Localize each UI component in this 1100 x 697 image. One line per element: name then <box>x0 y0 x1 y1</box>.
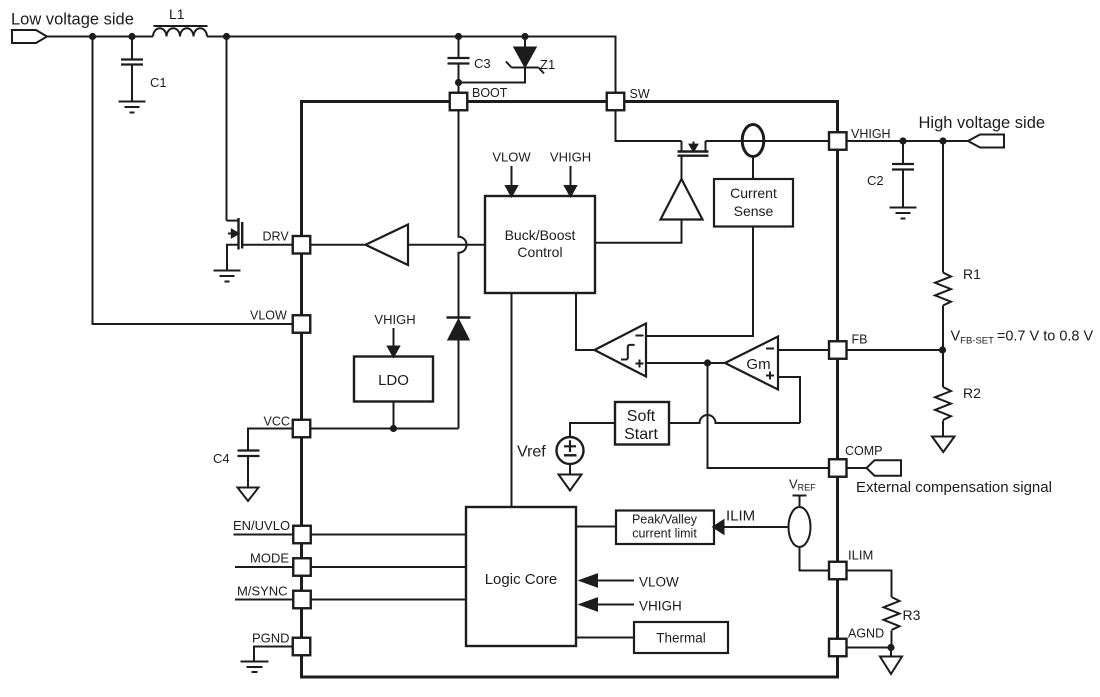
wire: Logic Core to Thermal <box>576 637 634 639</box>
wire: LDO output to VCC rail <box>393 402 395 429</box>
label+arrow: VLOW into Buck/Boost <box>492 150 531 197</box>
svg-text:Z1: Z1 <box>540 57 555 72</box>
svg-text:ILIM: ILIM <box>726 508 755 525</box>
node: C3 tap <box>455 33 462 40</box>
wire: R2 bottom <box>942 421 944 437</box>
IC main boundary <box>302 102 838 678</box>
wire: Current Sense to comparator minus input <box>646 227 753 337</box>
inductor L1 <box>153 6 208 37</box>
svg-text:MODE: MODE <box>250 551 289 566</box>
pin EN/UVLO <box>293 526 311 544</box>
pin ILIM <box>829 548 873 580</box>
wire: Q1 gate to DRV pin <box>242 244 293 246</box>
pin PGND <box>293 638 311 656</box>
wire: FB pin to divider <box>847 349 943 351</box>
wire: R3 bottom to AGND node <box>891 631 893 648</box>
wire: PGND stub <box>254 647 293 661</box>
pin FB <box>829 333 867 359</box>
svg-text:COMP: COMP <box>845 444 883 458</box>
node: R1 tap <box>939 137 946 144</box>
external connector (compensation) <box>867 460 902 476</box>
gate driver buffer U3 (high side) <box>661 179 703 220</box>
svg-text:Sense: Sense <box>734 203 774 219</box>
svg-text:EN/UVLO: EN/UVLO <box>233 518 290 533</box>
ground (Q1 source) <box>214 271 241 282</box>
svg-text:Peak/Valley: Peak/Valley <box>632 513 698 527</box>
transistor Q1 (low-side FET) <box>227 218 243 270</box>
wire: FB pin to Gm minus input <box>778 349 829 351</box>
label+arrow: VHIGH into LDO <box>374 312 415 357</box>
ground (Vref, open triangle) <box>559 475 582 491</box>
svg-text:DRV: DRV <box>263 230 290 244</box>
wire: Logic Core to Peak/Valley block <box>576 526 616 528</box>
svg-text:LDO: LDO <box>378 372 409 389</box>
wire: COMP pin to external connector <box>847 467 868 469</box>
svg-text:M/SYNC: M/SYNC <box>237 584 288 599</box>
label+arrow: VLOW into Logic Core <box>581 575 680 590</box>
wire: M/SYNC stub <box>235 599 293 601</box>
wire: oval to Current Sense block <box>752 157 754 180</box>
wire: MODE stub <box>235 566 293 568</box>
svg-text:BOOT: BOOT <box>472 86 508 100</box>
svg-text:C3: C3 <box>474 56 491 71</box>
svg-text:C1: C1 <box>150 75 167 90</box>
pin DRV <box>263 230 311 254</box>
label+arrow: VHIGH into Buck/Boost <box>550 150 591 197</box>
svg-text:ILIM: ILIM <box>848 548 873 563</box>
svg-text:Vref: Vref <box>517 444 546 461</box>
capacitor C2 <box>867 141 914 207</box>
svg-text:current limit: current limit <box>632 527 697 541</box>
pin SW <box>607 87 650 110</box>
svg-text:Buck/Boost: Buck/Boost <box>505 227 576 243</box>
resistor R2 <box>935 385 981 420</box>
wire: driver to Buck/Boost (crossed by BOOT line) <box>408 244 485 246</box>
Logic Core block <box>466 507 576 646</box>
node: VLOW tap <box>89 33 96 40</box>
gate driver buffer U2 (inverting, low side) <box>366 225 409 266</box>
svg-text:Start: Start <box>624 426 658 443</box>
wire: EN/UVLO stub <box>234 534 294 536</box>
ground (PGND) <box>241 662 269 673</box>
pin VLOW <box>250 309 310 333</box>
pin VHIGH <box>829 127 891 150</box>
wire: R1 bottom to FB node <box>942 306 944 351</box>
svg-text:VFB-SET =0.7 V to 0.8 V: VFB-SET =0.7 V to 0.8 V <box>951 329 1094 347</box>
wire: DRV pin to inverting driver <box>310 244 365 246</box>
pin COMP <box>829 444 883 477</box>
wire: R1 top <box>942 141 944 273</box>
wire: MODE to Logic Core <box>310 566 466 568</box>
Current Sense block <box>714 179 793 227</box>
svg-text:L1: L1 <box>169 6 185 22</box>
LDO block <box>354 357 433 402</box>
wire: VHIGH pin to output connector <box>847 140 969 142</box>
svg-text:PGND: PGND <box>252 631 290 646</box>
wire: Soft Start output with hop over COMP line <box>669 415 800 423</box>
node: C2 tap <box>899 137 906 144</box>
error amplifier Gm <box>725 337 778 390</box>
svg-text:SW: SW <box>630 87 650 101</box>
bootstrap diode D1 <box>447 318 471 340</box>
input connector (low voltage side) <box>12 30 47 43</box>
wire: FET to VHIGH pin <box>706 140 830 142</box>
svg-text:VLOW: VLOW <box>250 309 287 323</box>
svg-text:VHIGH: VHIGH <box>639 599 682 614</box>
wire: junction to ground triangle <box>890 648 892 657</box>
Thermal block <box>634 622 728 653</box>
wire: current source to ILIM pin <box>800 547 830 571</box>
node: Q1 drain tap <box>223 33 230 40</box>
node: C1 tap <box>128 33 135 40</box>
svg-text:Control: Control <box>517 244 562 260</box>
resistor R1 <box>935 266 981 305</box>
wire: VCC pin rail <box>310 428 458 430</box>
svg-text:C2: C2 <box>867 173 884 188</box>
ground (R2, open triangle) <box>932 437 955 453</box>
wire: junction down to COMP pin <box>708 363 830 468</box>
svg-text:C4: C4 <box>213 451 230 466</box>
wire: R2 top <box>942 350 944 387</box>
pin MODE <box>293 558 311 576</box>
svg-text:Gm: Gm <box>746 356 770 373</box>
node: AGND junction <box>887 644 894 651</box>
current source I-ILIM <box>789 496 811 548</box>
wire: L1 to SW corner, down to SW pin <box>207 37 616 94</box>
zener diode Z1 <box>459 37 556 83</box>
resistor R3 <box>884 597 921 630</box>
svg-text:FB: FB <box>852 333 868 347</box>
transistor Q2 (high-side FET) <box>678 141 709 179</box>
wire: Vref source to Soft Start <box>570 423 615 437</box>
Peak/Valley current limit block <box>616 511 714 545</box>
svg-text:VLOW: VLOW <box>492 150 531 165</box>
wire: Vref to ground <box>569 464 571 475</box>
wire: Gm plus input to soft-start rail <box>778 377 800 423</box>
pin BOOT <box>450 86 508 110</box>
wire: BOOT line with hop over DRV wire <box>459 110 467 317</box>
node: Z1 tap <box>521 33 528 40</box>
capacitor C3 <box>448 37 491 83</box>
wire: diode anode to VCC rail <box>458 340 460 429</box>
Buck/Boost Control block <box>485 196 595 293</box>
capacitor C4 <box>213 429 293 488</box>
svg-text:Current: Current <box>730 185 777 201</box>
wire: SW pin to high-side FET <box>616 110 682 141</box>
wire: BOOT junction to pin <box>458 83 460 94</box>
Soft Start block <box>615 402 669 445</box>
label+arrow: VHIGH into Logic Core <box>581 599 682 614</box>
wire: Gm output to comparator plus input <box>646 362 725 364</box>
pin M/SYNC <box>293 591 311 609</box>
svg-text:R3: R3 <box>903 607 921 623</box>
ground (C1) <box>119 102 146 113</box>
svg-text:VLOW: VLOW <box>639 575 679 590</box>
pin AGND <box>829 627 884 657</box>
wire: EN/UVLO to Logic Core <box>310 534 466 536</box>
svg-text:External compensation signal: External compensation signal <box>856 479 1052 496</box>
svg-text:VREF: VREF <box>789 477 816 493</box>
svg-text:VHIGH: VHIGH <box>550 150 591 165</box>
pin VCC <box>264 415 311 438</box>
svg-text:VHIGH: VHIGH <box>374 312 415 327</box>
wire: AGND pin to ground <box>847 647 892 649</box>
capacitor C1 <box>121 37 167 101</box>
current sense element (oval) <box>742 125 764 157</box>
svg-text:Logic Core: Logic Core <box>485 571 558 588</box>
wire: M/SYNC to Logic Core <box>310 599 466 601</box>
svg-text:High voltage side: High voltage side <box>919 114 1046 132</box>
ground (C4, open triangle) <box>238 488 259 502</box>
wire: Q1 drain run <box>226 37 228 221</box>
svg-text:AGND: AGND <box>848 627 884 641</box>
ground (C2) <box>890 208 917 219</box>
node: feedback divider junction <box>939 346 946 353</box>
svg-text:Thermal: Thermal <box>656 631 706 646</box>
output connector (high voltage side) <box>968 135 1004 148</box>
svg-text:R1: R1 <box>963 266 981 282</box>
svg-text:VHIGH: VHIGH <box>851 127 891 141</box>
node: LDO/VCC junction <box>390 425 397 432</box>
svg-text:R2: R2 <box>963 385 981 401</box>
voltage source Vref <box>557 437 584 464</box>
wire: Buck/Boost to comparator output <box>576 293 595 350</box>
wire: VLOW external run <box>93 37 293 325</box>
wire: Buck/Boost to Logic Core <box>511 293 513 507</box>
wire: input rail to L1 <box>47 36 153 38</box>
ground (AGND, open triangle) <box>880 657 902 675</box>
node: BOOT junction <box>455 79 462 86</box>
svg-text:Soft: Soft <box>627 408 656 425</box>
comparator U4 (PWM) <box>595 324 647 377</box>
wire+arrow: ILIM set current into Peak/Valley <box>714 508 789 534</box>
node: Gm output / COMP junction <box>704 359 711 366</box>
wire: ILIM pin to R3 <box>847 571 892 598</box>
svg-text:VCC: VCC <box>264 415 290 429</box>
svg-text:Low voltage side: Low voltage side <box>11 11 134 29</box>
wire: driver input from Buck/Boost Control <box>595 220 682 243</box>
